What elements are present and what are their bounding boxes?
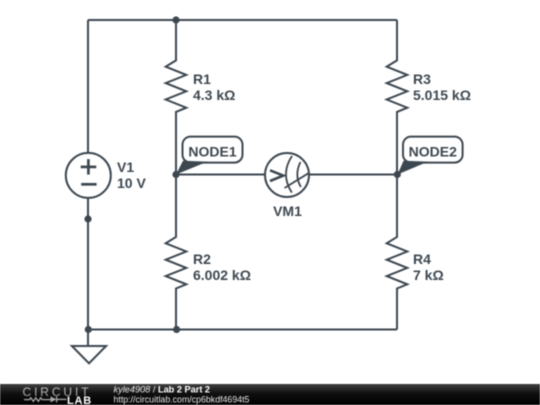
svg-text:R4: R4 [413, 251, 431, 267]
svg-text:kyle4908 / Lab 2 Part 2: kyle4908 / Lab 2 Part 2 [114, 384, 211, 394]
svg-text:7 kΩ: 7 kΩ [413, 267, 444, 283]
svg-text:V1: V1 [117, 159, 134, 175]
svg-text:LAB: LAB [67, 395, 92, 405]
svg-text:6.002 kΩ: 6.002 kΩ [193, 267, 251, 283]
svg-text:NODE2: NODE2 [409, 143, 457, 159]
svg-text:5.015 kΩ: 5.015 kΩ [413, 87, 471, 103]
svg-text:VM1: VM1 [273, 203, 302, 219]
svg-text:R2: R2 [193, 251, 211, 267]
svg-text:4.3 kΩ: 4.3 kΩ [193, 87, 235, 103]
svg-text:R3: R3 [413, 71, 431, 87]
svg-text:http://circuitlab.com/cp6bkdf4: http://circuitlab.com/cp6bkdf4694t5 [114, 395, 250, 405]
svg-text:NODE1: NODE1 [188, 143, 236, 159]
svg-text:10 V: 10 V [117, 175, 146, 191]
svg-text:R1: R1 [193, 71, 211, 87]
